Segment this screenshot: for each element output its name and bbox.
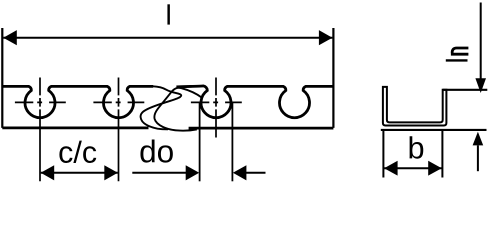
dimension l right arrowhead	[319, 30, 333, 45]
up arrow tail line	[477, 145, 479, 171]
h top extension line (from right flange top)	[443, 89, 488, 91]
break squiggle left	[141, 86, 182, 129]
label h (rotated) stem bar	[451, 53, 469, 56]
b extension line left	[382, 131, 384, 178]
h dimension down arrow line	[480, 3, 482, 79]
bottom reference extension line	[381, 129, 487, 131]
dimension do left leader line	[132, 172, 186, 174]
do extension line left (hole 3 left edge)	[199, 102, 201, 181]
strip bottom edge right part	[189, 127, 334, 130]
dimension c/c right arrowhead	[104, 165, 118, 180]
dimension b line	[384, 167, 442, 169]
hole 3 centerline horizontal	[191, 101, 242, 103]
strip left end / extension line	[1, 28, 3, 128]
dimension do right leader line	[246, 172, 266, 174]
channel cross-section profile	[383, 87, 447, 126]
hole 1 centerline horizontal	[15, 101, 66, 103]
dimension do right-pointing arrowhead	[186, 165, 200, 180]
label l	[167, 4, 169, 24]
break squiggle right	[154, 88, 202, 131]
hole 1 centerline vertical	[39, 78, 41, 182]
b extension line right	[441, 131, 443, 178]
dimension l left arrowhead	[3, 30, 16, 45]
do extension line right (hole 3 right edge)	[231, 102, 233, 181]
strip top edge with keyhole slots 1 and 2	[2, 86, 153, 117]
up arrowhead at bottom reference	[473, 132, 484, 146]
hole 3 centerline vertical	[215, 78, 217, 138]
strip right end / extension line	[332, 28, 334, 128]
strip top edge with keyhole slot 3	[176, 86, 333, 118]
dimension do left-pointing arrowhead	[233, 165, 247, 180]
hole 2 centerline vertical	[118, 78, 120, 182]
label do	[140, 139, 172, 162]
label h underline	[446, 59, 468, 61]
dimension b right arrowhead	[428, 161, 442, 176]
h dimension down arrowhead	[475, 78, 486, 93]
hole 2 centerline horizontal	[93, 101, 144, 103]
dimension l line	[3, 37, 332, 39]
dimension c/c line	[41, 172, 118, 174]
label c/c	[59, 141, 96, 163]
dimension b left arrowhead	[384, 161, 398, 176]
label h (rotated) arch	[452, 48, 468, 53]
label b	[410, 136, 424, 158]
strip bottom edge left part	[2, 127, 148, 130]
dimension c/c left arrowhead	[41, 165, 55, 180]
